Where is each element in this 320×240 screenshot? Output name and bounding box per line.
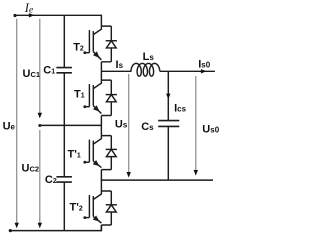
wire bottom rail <box>10 225 101 231</box>
arrowhead UC1 <box>38 113 42 119</box>
svg-text:Ls: Ls <box>143 51 155 63</box>
svg-text:Us0: Us0 <box>202 123 219 135</box>
capacitor C1 <box>56 68 72 73</box>
arrowhead Ics current <box>166 94 170 100</box>
wire top rail <box>15 15 101 26</box>
transistor T1 (IGBT) <box>83 80 101 113</box>
freewheeling diode across T'1 <box>101 136 117 170</box>
arrow line Us <box>128 74 130 172</box>
arrow line UC1 <box>39 19 41 113</box>
arrow line Ue <box>16 19 18 224</box>
capacitor Cs <box>158 121 179 127</box>
svg-text:UC2: UC2 <box>22 162 40 174</box>
svg-text:Is: Is <box>116 59 124 71</box>
wire capacitor column <box>63 15 65 230</box>
freewheeling diode across T'2 <box>101 191 117 225</box>
svg-text:Us: Us <box>115 119 128 131</box>
node input top terminal <box>13 14 16 17</box>
transistor T2 (IGBT) <box>83 26 101 60</box>
svg-text:Ue: Ue <box>3 120 16 132</box>
node capacitor midpoint <box>38 124 41 127</box>
svg-text:Cs: Cs <box>141 121 154 133</box>
arrowhead Is0 current <box>201 69 207 73</box>
transistor T'2 (IGBT) <box>83 191 101 223</box>
wire Cs branch <box>167 71 169 180</box>
freewheeling diode across T2 <box>101 26 117 62</box>
arrowhead UC2 <box>38 223 42 229</box>
arrow line UC2 <box>39 130 41 223</box>
arrowhead Us <box>127 172 131 178</box>
capacitor C2 <box>56 177 72 182</box>
svg-text:UC1: UC1 <box>23 68 41 80</box>
wire after inductor <box>160 70 215 72</box>
wire Is output <box>101 70 131 72</box>
wire switch column segments <box>100 62 102 231</box>
node input bottom terminal <box>9 229 12 232</box>
svg-text:Is0: Is0 <box>198 59 211 71</box>
arrowhead Ue <box>15 223 19 229</box>
wire output rail <box>101 179 213 181</box>
arrowhead Us0 <box>194 170 198 176</box>
arrow line Us0 <box>195 76 197 170</box>
transistor T'1 (IGBT) <box>83 136 101 168</box>
freewheeling diode across T1 <box>101 80 117 115</box>
inductor Ls <box>131 63 160 76</box>
svg-text:Ics: Ics <box>174 102 187 114</box>
wire midpoint link <box>40 124 102 126</box>
arrowhead Ie current <box>29 13 35 17</box>
